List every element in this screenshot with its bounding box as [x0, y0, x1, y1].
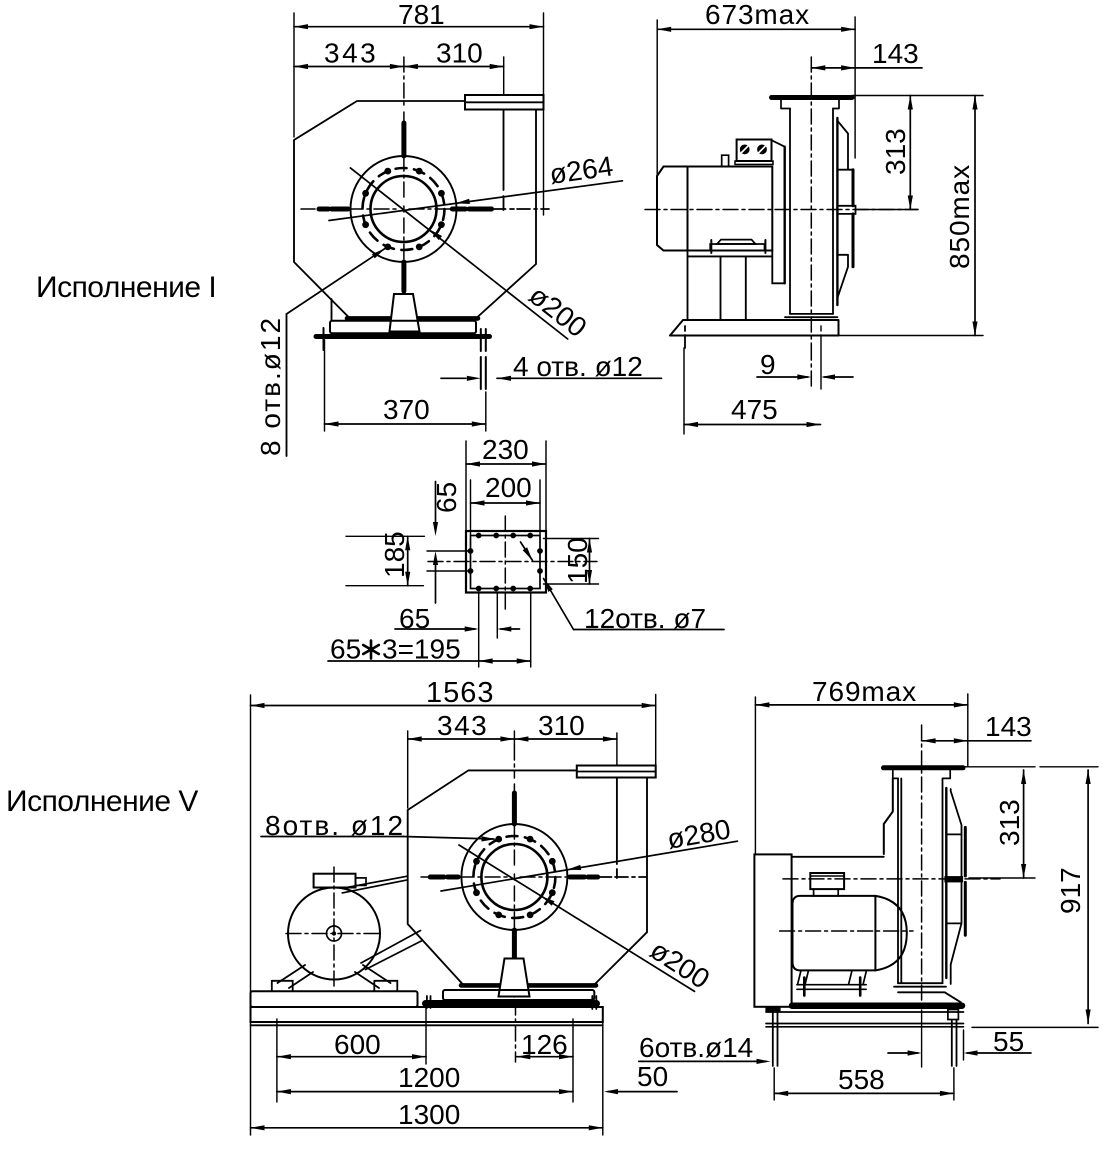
- svg-text:475: 475: [731, 394, 778, 425]
- svg-text:343: 343: [324, 38, 378, 69]
- base frame (side V): [766, 1012, 964, 1027]
- belt pair upper: [342, 876, 407, 893]
- motor M2 terminal box: [314, 874, 356, 888]
- casing bottom (side V): [894, 983, 946, 987]
- leader 8 отв.ø12: [287, 249, 386, 315]
- wire from box to casing: [772, 140, 785, 147]
- fan base pad (V): [443, 990, 594, 1000]
- svg-text:310: 310: [436, 38, 483, 69]
- flange outer square: [466, 531, 546, 593]
- inlet side plate (side V): [946, 789, 961, 984]
- bolt circle dashed: [363, 168, 445, 250]
- pedestal trapezoid (V): [499, 959, 530, 997]
- outlet duct left wall (V): [616, 778, 618, 879]
- inlet collar notch: [837, 206, 855, 214]
- svg-text:781: 781: [398, 0, 445, 30]
- motor axis centerline (side V): [780, 930, 913, 932]
- horizontal centerline thick bars (V): [421, 876, 428, 878]
- vertical centerline with thick bars (view I): [403, 57, 405, 122]
- svg-text:1563: 1563: [426, 677, 495, 709]
- svg-text:1300: 1300: [398, 1099, 460, 1130]
- 8 flange bolts: [438, 190, 445, 197]
- motor M1 terminal box: [737, 140, 772, 162]
- motor bottom mount plates: [717, 240, 756, 244]
- svg-text:143: 143: [985, 711, 1032, 742]
- drive motor M2 (end view): [288, 888, 380, 980]
- common base frame (V): [251, 1007, 603, 1022]
- motor M1 end cap: [657, 167, 688, 251]
- svg-text:65: 65: [330, 634, 361, 665]
- left hole mark dash: [323, 328, 325, 350]
- svg-text:185: 185: [379, 531, 410, 578]
- leader ø200 (V): [459, 845, 695, 991]
- motor M3 body (side V): [793, 896, 876, 971]
- svg-text:1200: 1200: [398, 1062, 460, 1093]
- motor M3 terminal box (side V): [810, 873, 844, 889]
- svg-text:3=195: 3=195: [382, 634, 461, 665]
- scroll left profile (side V): [884, 778, 893, 854]
- svg-text:Исполнение I: Исполнение I: [36, 271, 216, 304]
- terminal box bolts: [740, 145, 750, 155]
- flange inner square: [471, 536, 541, 589]
- outlet flange (front view I): [465, 95, 544, 110]
- motor legs: [278, 965, 391, 988]
- motor M3 feet: [798, 970, 867, 984]
- svg-text:310: 310: [538, 710, 585, 741]
- base plate (side view I): [670, 320, 839, 336]
- casing duct walls (side I): [790, 109, 833, 314]
- motor M1 body: [688, 167, 773, 251]
- svg-text:Исполнение V: Исполнение V: [6, 785, 198, 818]
- outlet duct left wall: [503, 110, 505, 211]
- inlet flange outer circle (ø264): [351, 156, 457, 262]
- svg-text:200: 200: [485, 472, 532, 503]
- svg-text:343: 343: [437, 710, 488, 741]
- 8 flange bolts (V): [549, 858, 556, 865]
- motor base pad (V): [251, 991, 418, 1007]
- fan axis centerline (side V): [783, 878, 1000, 880]
- svg-text:558: 558: [838, 1064, 885, 1095]
- leader ø264: [329, 181, 622, 221]
- base hole marks: [684, 326, 686, 348]
- leader 12отв to side hole: [544, 579, 574, 630]
- svg-text:230: 230: [482, 434, 529, 465]
- outlet flange (view V): [577, 766, 656, 778]
- belt guard box: [754, 854, 791, 1006]
- svg-text:313: 313: [880, 128, 911, 175]
- casing outlet flange (side V): [884, 765, 964, 770]
- horizontal centerline with thick bars (view I): [301, 208, 315, 210]
- fan casing outlet flange (side I): [772, 95, 853, 100]
- housing bottom thick edge: [347, 316, 478, 321]
- wheel centerline vertical (side I): [810, 57, 812, 345]
- motor centerlines: [286, 933, 382, 935]
- base foot flange thick plate: [316, 334, 490, 339]
- inlet opening circle (ø200): [371, 176, 437, 242]
- svg-text:50: 50: [637, 1061, 668, 1092]
- base pad under casing (side V): [898, 992, 961, 1002]
- svg-text:4 отв. ø12: 4 отв. ø12: [513, 351, 643, 382]
- base thick sole (side V): [792, 1002, 962, 1009]
- svg-text:313: 313: [994, 799, 1025, 846]
- pedestal trapezoid (view I): [390, 294, 420, 332]
- guard box foot pad: [765, 1008, 780, 1012]
- motor eyebolt nub: [722, 155, 729, 166]
- casing bottom (side I): [785, 314, 837, 317]
- svg-text:6отв.ø14: 6отв.ø14: [639, 1032, 753, 1063]
- axis centerline horizontal (side I): [645, 209, 918, 211]
- base hole marks left (side V): [773, 1013, 778, 1066]
- casing duct walls (side V): [898, 778, 943, 983]
- fan pad thick sole: [426, 1000, 597, 1007]
- flange bolt holes (12): [476, 533, 482, 539]
- motor M3 end cap bulge: [875, 896, 906, 971]
- leader ø280: [441, 841, 737, 891]
- inlet outer circle (view V): [461, 824, 567, 930]
- svg-text:769max: 769max: [812, 676, 917, 707]
- dimension 310 (view I): [404, 64, 418, 69]
- flange centerlines: [504, 516, 506, 612]
- leader inside flange: [521, 542, 533, 561]
- inlet side plate (side I): [837, 121, 853, 298]
- dimension 310 (V): [514, 736, 528, 741]
- base pad (view I): [330, 321, 476, 333]
- motor pedestal columns: [688, 251, 785, 321]
- svg-text:9: 9: [760, 349, 776, 380]
- asterisk symbol: [363, 641, 379, 659]
- svg-text:600: 600: [334, 1029, 381, 1060]
- leader ø200 (view I): [350, 168, 567, 339]
- motor shaft: [327, 926, 342, 941]
- svg-text:917: 917: [1055, 867, 1086, 914]
- svg-text:673max: 673max: [705, 0, 810, 30]
- vertical centerline thick bars (V): [513, 745, 515, 792]
- svg-text:8 отв.ø12: 8 отв.ø12: [255, 316, 286, 456]
- wheel plane centerline vertical (side V): [921, 725, 923, 1010]
- svg-text:370: 370: [383, 394, 430, 425]
- base hole marks right + foot (side V): [948, 1010, 959, 1020]
- 4 holes marks (right, two lines): [481, 329, 486, 389]
- housing bottom thick edge (V): [461, 983, 596, 988]
- fan housing octagon (front view I): [294, 101, 536, 318]
- bolt circle dashed (V): [473, 836, 555, 918]
- svg-text:143: 143: [872, 38, 919, 69]
- motor foot pads: [272, 981, 293, 991]
- belt pair lower: [361, 931, 422, 970]
- shaft hub block: [944, 876, 963, 882]
- inlet opening circle ø200 (V): [481, 844, 547, 910]
- svg-text:850max: 850max: [944, 164, 975, 269]
- fan housing octagon (view V): [408, 770, 647, 984]
